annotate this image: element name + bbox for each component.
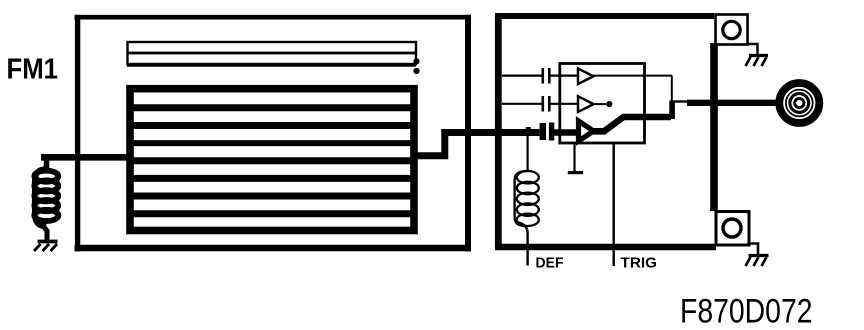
wire: thin link to output	[672, 100, 688, 102]
stripe line 6	[130, 193, 414, 200]
capacitor C2	[543, 96, 550, 112]
wire: input 1 (top, thin)	[502, 74, 542, 76]
wire: coil L1 to striped block (left feed)	[41, 154, 130, 161]
coax connector J1	[779, 83, 819, 123]
stripe line 4	[130, 157, 414, 164]
svg-text:F870D072: F870D072	[680, 293, 813, 330]
stripe line 2	[130, 122, 414, 129]
wire: C1 to amp U1a	[551, 74, 579, 76]
wire: jog up to output level	[669, 101, 675, 120]
wire: junction drop (thin vertical)	[671, 76, 673, 101]
wire: C2 to amp U1b	[551, 103, 579, 105]
mounting terminal (top right)	[716, 15, 748, 45]
op-amp U1a	[578, 69, 594, 85]
wire: C3 to amp U1c (thick)	[554, 129, 579, 136]
wire: output to connector (thick)	[687, 100, 777, 106]
amplifier block box	[560, 64, 645, 144]
wire: TRIG line	[613, 144, 615, 266]
op-amp U1c (bold)	[579, 121, 594, 141]
wire: input 2 (middle, thin)	[502, 103, 542, 105]
switch unit box	[495, 13, 716, 250]
capacitor C3 (thick)	[543, 123, 552, 141]
switch arm (thick)	[592, 117, 671, 131]
svg-text:FM1: FM1	[7, 53, 59, 85]
plate divider line	[127, 52, 416, 55]
top plate (scale/dial bar)	[128, 42, 417, 64]
ground (top right)	[746, 44, 769, 66]
wire: striped block output to switch box (thick signal path)	[412, 133, 540, 156]
capacitor C1	[543, 68, 550, 84]
wire: U1a output to junction	[593, 75, 672, 77]
svg-text:TRIG: TRIG	[621, 254, 658, 271]
inductor L1 top lead	[44, 157, 50, 170]
wire: U1b output stub	[593, 103, 606, 105]
plate bottom thick edge	[127, 63, 416, 67]
stripe line 5	[130, 175, 414, 182]
dot (upper contact)	[413, 58, 419, 64]
striped tuning block	[130, 89, 414, 231]
ground (below L1)	[34, 242, 58, 252]
op-amp U1b	[578, 96, 594, 112]
wire: L2 bottom lead to DEF terminal	[519, 223, 528, 266]
inductor L1 (FM1 coil)	[34, 169, 58, 226]
terminator T (below amp box)	[568, 144, 583, 173]
svg-text:DEF: DEF	[536, 254, 564, 271]
tuner module box FM1	[75, 15, 472, 252]
stripe line 7	[130, 210, 414, 217]
inductor L1 bottom lead	[41, 223, 47, 241]
node: DEF branch junction	[526, 127, 531, 133]
stripe line 1	[130, 104, 414, 111]
inductor L2 (DEF coil)	[515, 171, 539, 226]
stripe line 3	[130, 140, 414, 146]
node contact dot	[606, 101, 612, 107]
dot (lower contact)	[413, 68, 419, 74]
wire: junction to coil L2	[526, 133, 528, 171]
mounting terminal (bottom right)	[716, 212, 749, 246]
ground (bottom right)	[746, 244, 769, 267]
